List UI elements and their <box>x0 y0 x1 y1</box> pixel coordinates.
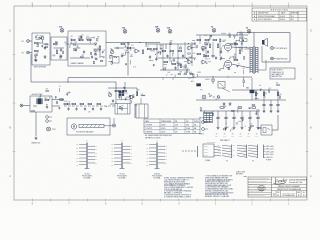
connector P3 pinout <box>244 145 258 163</box>
wire <box>173 58 175 62</box>
ext speaker jack <box>271 47 288 50</box>
wire <box>134 104 136 118</box>
speaker SP1 <box>262 38 267 46</box>
resistor R16 <box>170 50 174 52</box>
resistor R7 <box>80 39 84 41</box>
table footnote <box>145 134 172 139</box>
connector P5 legend <box>264 145 274 162</box>
capacitor C23 <box>118 95 120 98</box>
wire <box>52 105 60 107</box>
connector P1 pinout <box>218 145 232 163</box>
capacitor C18 <box>67 107 69 110</box>
junction <box>127 42 128 43</box>
wire <box>114 47 116 49</box>
bias pot <box>246 78 254 100</box>
wire <box>33 105 37 107</box>
resistor R6 <box>72 39 76 41</box>
capacitor C14 <box>215 56 217 59</box>
footswitch jack <box>104 118 116 127</box>
wire <box>70 57 90 59</box>
wire <box>68 77 196 79</box>
triode V6 <box>129 95 135 99</box>
ground <box>249 126 252 129</box>
filter capacitor C53 <box>240 111 244 126</box>
cluster texture box B <box>52 42 69 59</box>
diode CR2 <box>94 43 96 45</box>
tube socket label V2B <box>155 26 160 32</box>
mixer bottom parts <box>163 72 193 81</box>
power supply screen rail <box>200 110 260 112</box>
AC receptacle <box>202 95 206 99</box>
resistor R30 <box>239 50 241 54</box>
wire <box>54 47 65 49</box>
filter capacitor C62 <box>276 100 279 110</box>
cluster texture bias area <box>257 83 282 99</box>
capacitor C4 <box>83 50 85 53</box>
cluster texture power amp <box>196 32 249 77</box>
tube pinout diagram V3 6L6GC <box>146 141 167 180</box>
reverb driver label <box>32 94 43 96</box>
transformer parts table <box>144 119 200 134</box>
wire <box>99 50 101 58</box>
resistor R18 <box>164 61 168 63</box>
capacitor C13 <box>207 50 209 53</box>
resistor R14 <box>154 48 158 50</box>
company name text <box>289 179 307 185</box>
wire <box>158 57 196 59</box>
tube socket label V1A <box>59 25 64 32</box>
power amp vertical wires <box>200 35 242 60</box>
capacitor C24 <box>112 99 114 102</box>
wire <box>52 99 64 101</box>
load note fragment <box>236 171 247 177</box>
resistor R1 <box>35 42 39 44</box>
channel box A <box>32 33 50 65</box>
potentiometer VR1 <box>110 49 114 57</box>
main speaker jack <box>271 57 288 60</box>
resistor R19 <box>172 63 176 65</box>
output return wire <box>258 60 266 70</box>
drawing title text <box>272 185 307 191</box>
diode CR3 <box>94 53 96 55</box>
wire <box>30 54 32 82</box>
resistor R9 <box>99 46 101 50</box>
pilot lamp <box>47 127 57 131</box>
resistor R43 <box>252 107 256 109</box>
resistor R8 <box>88 39 92 41</box>
fuse F1 <box>217 96 220 99</box>
power transformer T1 <box>204 113 213 123</box>
capacitor C9 <box>155 57 157 60</box>
reverb driver box <box>30 96 52 112</box>
capacitor C11 <box>182 54 184 57</box>
potentiometer VR2 <box>108 92 111 97</box>
notes paragraph left <box>164 177 195 198</box>
preamp out jack <box>199 118 208 124</box>
resistor R38 <box>115 90 119 92</box>
output transformer T2 <box>250 46 258 74</box>
reverb transformer T3 <box>37 99 43 105</box>
resistor R32 <box>60 99 64 101</box>
revision table <box>252 8 307 21</box>
ground <box>233 126 236 129</box>
triode V4 <box>201 46 207 50</box>
cluster texture box A <box>34 35 49 61</box>
resistor R44 <box>255 92 257 96</box>
footswitch label <box>76 131 94 134</box>
box A label <box>34 67 46 69</box>
resistor R11 <box>127 47 131 49</box>
wire <box>131 47 135 49</box>
wire <box>277 115 279 130</box>
chassis ground label <box>31 142 40 145</box>
power supply B+ rail <box>196 99 286 101</box>
wire <box>232 47 250 48</box>
capacitor C20 <box>84 107 86 110</box>
output loop top wire <box>237 33 290 48</box>
approval stamp <box>258 186 265 192</box>
filter capacitor C50 <box>216 111 220 126</box>
cluster texture tone stage <box>108 43 133 66</box>
resistor R3 <box>42 36 44 40</box>
capacitor C7 <box>121 54 123 57</box>
cluster texture trem stage <box>106 87 146 110</box>
triode V1 <box>134 49 140 53</box>
ground <box>241 126 244 129</box>
input jack J1 <box>22 40 33 43</box>
reverb output box <box>136 98 148 118</box>
junction <box>67 81 68 82</box>
wire <box>70 43 94 45</box>
wire <box>136 88 138 92</box>
wire harness chain <box>182 146 198 157</box>
reverb tank box <box>115 104 130 115</box>
Fender logo <box>274 177 288 185</box>
diode CR4 <box>223 103 225 105</box>
resistor R36 <box>88 103 92 105</box>
bias network blob <box>191 76 214 86</box>
capacitor C8 <box>149 55 151 58</box>
cluster texture coupler <box>147 46 163 67</box>
ground <box>35 137 38 140</box>
standby relay <box>218 82 230 93</box>
tube socket label V5 <box>246 27 251 33</box>
wire <box>119 47 124 49</box>
reverb return label <box>64 101 91 114</box>
tube pinout diagram V1 7025 <box>76 141 97 180</box>
wire <box>39 42 43 44</box>
RCA jack pair <box>46 116 52 123</box>
reverb cable wires <box>64 105 115 107</box>
wire <box>115 82 117 104</box>
resistor R15 <box>162 50 166 52</box>
triode V2 <box>187 46 193 50</box>
line out connector <box>20 104 30 107</box>
resistor R28 <box>234 43 238 45</box>
bias supply dropper 3 <box>277 90 279 100</box>
resistor R31 <box>45 99 49 101</box>
mixer stage cluster <box>0 0 1 1</box>
wire <box>209 35 211 40</box>
resistor R41 <box>220 107 224 109</box>
wire <box>272 129 278 131</box>
resistor R33 <box>64 103 68 105</box>
capacitor C22 <box>100 107 102 110</box>
resistor R10 <box>121 43 125 45</box>
resistor R29 <box>234 59 238 61</box>
filter cap value labels <box>215 134 258 138</box>
wire <box>106 42 160 44</box>
tube socket label V3A <box>167 26 172 33</box>
wire <box>108 87 137 89</box>
filter capacitor C60 <box>262 100 265 110</box>
filter capacitor C52 <box>232 111 236 126</box>
resistor R40 <box>136 92 138 96</box>
junction <box>139 42 140 43</box>
resistor R34 <box>72 103 76 105</box>
resistor R24 <box>197 53 201 55</box>
wire <box>232 64 250 68</box>
tube pinout diagram V2 7025 <box>111 141 132 180</box>
wire <box>196 34 248 36</box>
bias supply dropper 2 <box>263 90 265 100</box>
cluster texture mixer <box>159 40 195 77</box>
ground <box>277 110 280 113</box>
wire <box>127 43 129 76</box>
tube socket label V4 <box>211 25 216 32</box>
resistor R42 <box>238 107 242 109</box>
bias supply dropper 1 <box>255 90 257 100</box>
capacitor C12 <box>174 66 176 69</box>
capacitor C3 <box>75 48 77 51</box>
capacitor C1 <box>44 46 46 49</box>
cluster texture reverb driver <box>32 86 71 111</box>
tube socket label V2A <box>122 26 127 33</box>
capacitor C6 <box>116 47 119 49</box>
resistor R20 <box>180 64 182 68</box>
wire <box>146 43 160 45</box>
wire <box>145 43 147 48</box>
capacitor C10 <box>166 54 168 57</box>
capacitor C2 <box>60 48 62 51</box>
wire <box>196 76 252 78</box>
resistor R35 <box>80 103 84 105</box>
power in jack <box>199 128 208 136</box>
power tube V4 <box>224 43 231 52</box>
resistor R22 <box>205 39 209 41</box>
box C label <box>71 62 85 65</box>
ground <box>263 110 266 113</box>
tone stack box <box>113 57 136 69</box>
capacitor C5 <box>91 55 93 58</box>
bias divider labels <box>191 77 244 92</box>
resistor R25 <box>205 55 209 57</box>
filter capacitor C55 <box>256 111 260 126</box>
footswitch cable <box>79 124 104 127</box>
junction <box>227 76 228 77</box>
capacitor C19 <box>75 107 77 110</box>
ground <box>225 126 228 129</box>
channel box B <box>51 37 67 60</box>
power switch S1 <box>208 93 215 97</box>
filter capacitor C61 <box>269 100 272 110</box>
diode CR5 <box>229 103 231 105</box>
wire <box>110 103 115 105</box>
cluster texture vibrato box <box>70 35 105 64</box>
cluster texture power supply <box>200 95 261 132</box>
wire <box>165 44 167 49</box>
wire <box>232 89 278 91</box>
triode V5 <box>201 60 207 64</box>
ground <box>35 59 38 62</box>
reverb send ground <box>0 0 1 1</box>
impedance selector <box>239 37 247 42</box>
junction <box>169 43 170 44</box>
resistor R12 <box>142 50 144 54</box>
capacitor C16 <box>46 105 48 108</box>
mixer vertical wires <box>157 42 192 70</box>
ground <box>270 110 273 113</box>
capacitor C15 <box>220 50 222 53</box>
opto coupler (roach) <box>117 82 130 100</box>
ground <box>60 55 63 58</box>
filter capacitor C54 <box>248 111 252 126</box>
resistor R23 <box>213 39 217 41</box>
resistor R21 <box>197 39 201 41</box>
output load note box <box>270 68 295 79</box>
capacitor C21 <box>92 107 94 110</box>
resistor R46 <box>277 92 279 96</box>
resistor R37 <box>97 103 101 105</box>
resistor R13 <box>148 48 152 50</box>
notes paragraph right <box>205 175 233 198</box>
ground <box>217 126 220 129</box>
connector legend box <box>203 142 221 162</box>
resistor R26 <box>209 44 211 48</box>
power transformer label <box>220 139 230 142</box>
paper speckle overlay <box>0 0 1 1</box>
resistor R4 <box>54 43 58 45</box>
title block number row <box>273 191 305 198</box>
output loop right wire <box>262 33 290 63</box>
triode V3 <box>187 60 193 64</box>
resistor R2 <box>35 50 39 52</box>
input jack J2 <box>22 51 33 54</box>
power tube V5 <box>224 60 231 69</box>
junction <box>177 57 178 58</box>
title block <box>248 177 307 197</box>
footswitch box <box>67 118 110 135</box>
wire <box>35 112 37 136</box>
resistor R27 <box>217 44 219 48</box>
sheet border frame <box>13 5 309 202</box>
filter capacitor C51 <box>224 111 228 126</box>
connector P2 pinout <box>233 145 247 159</box>
footswitch unit <box>71 124 76 129</box>
wire <box>31 81 116 83</box>
ground <box>257 126 260 129</box>
diode CR1 <box>44 56 46 58</box>
wire <box>42 40 44 43</box>
resistor R17 <box>178 50 182 52</box>
capacitor C17 <box>56 101 58 104</box>
resistor R39 <box>123 90 127 92</box>
wire <box>160 69 190 71</box>
wire <box>67 78 69 82</box>
resistor R5 <box>56 50 58 54</box>
wire <box>160 43 196 45</box>
relay box <box>261 125 272 135</box>
resistor R45 <box>263 92 265 96</box>
vibrato channel box <box>68 31 106 66</box>
